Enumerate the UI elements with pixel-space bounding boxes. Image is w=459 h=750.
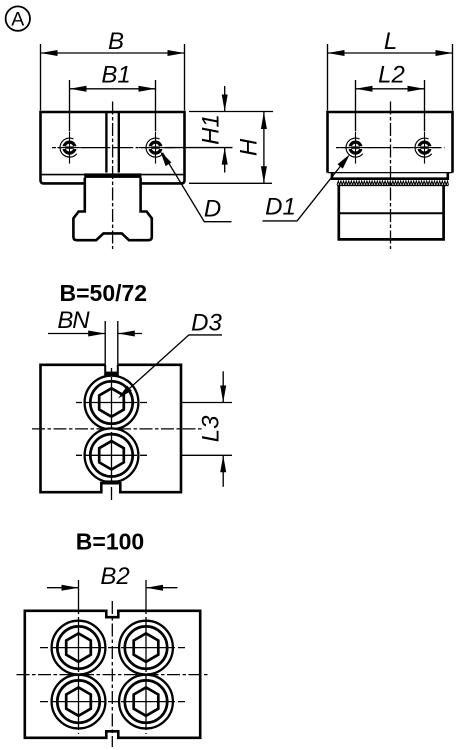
dimension H1 top reference line — [189, 111, 273, 113]
screw D3 upper (middle view) — [85, 376, 139, 430]
dimension B2 arrow right — [146, 585, 163, 591]
svg-text:L3: L3 — [198, 415, 225, 442]
side view: body bottom line — [328, 172, 453, 174]
side view: serrated gripping surface — [337, 181, 448, 185]
svg-text:B2: B2 — [100, 563, 129, 590]
bottom view: body outline with slot notches — [25, 611, 200, 738]
front view: horizontal centerline through screws — [52, 147, 174, 149]
svg-text:BN: BN — [57, 307, 90, 334]
screw D left (front view) — [60, 138, 77, 157]
svg-text:H1: H1 — [197, 114, 224, 145]
front view: body bottom line — [41, 174, 184, 176]
side view: lower block outline — [339, 186, 444, 240]
dimension L3 arrow bottom — [220, 455, 226, 472]
label D3 leader line — [121, 335, 223, 397]
svg-text:H: H — [235, 138, 262, 156]
front view: serration band on stem — [84, 173, 141, 178]
bottom view: horizontal centerline — [17, 674, 209, 676]
dimension B1 arrow left — [70, 86, 87, 92]
label D3 leader arrow — [118, 386, 132, 399]
screw top-left (bottom view) — [52, 621, 106, 675]
dimension H1 arrow bottom — [222, 148, 228, 165]
dimension B extension line left — [40, 44, 42, 111]
dimension L2 extension line right — [424, 80, 426, 131]
dimension L2 line — [356, 88, 425, 90]
screw D1 left (side view) — [346, 138, 363, 157]
dimension H arrow bottom — [261, 166, 267, 183]
dimension L arrow left — [328, 50, 345, 56]
view indicator circle A — [6, 6, 30, 30]
svg-text:B: B — [108, 28, 124, 55]
label D1 leader line — [263, 159, 347, 221]
dimension L arrow right — [436, 50, 453, 56]
front view: T-slot foot outline — [73, 178, 151, 240]
label D leader line — [163, 153, 232, 222]
side view: vertical centerline — [390, 102, 392, 250]
middle view: vertical centerline — [111, 368, 113, 500]
front view: central slot right edge — [118, 113, 120, 173]
dimension B2 line left tail — [47, 587, 79, 589]
dimension BN arrow left — [88, 331, 105, 337]
screw D3 lower (middle view) — [85, 428, 139, 482]
dimension L3 line upper tail — [222, 371, 224, 402]
middle view: body outline with bottom notch — [41, 365, 182, 492]
screw D right (front view) — [146, 138, 163, 157]
svg-text:D: D — [204, 196, 221, 223]
dimension BN arrow right — [118, 331, 135, 337]
middle view: screw-to-notch junction fill — [105, 480, 118, 484]
svg-text:A: A — [11, 8, 24, 30]
dimension L2 extension line left — [355, 80, 357, 131]
side view: lower block split line — [339, 212, 444, 214]
screw bottom-right (bottom view) — [119, 675, 173, 729]
svg-text:L2: L2 — [378, 62, 405, 89]
middle view: horizontal centerline — [32, 428, 203, 430]
screw D1 right (side view) — [415, 138, 432, 157]
dimension B1 extension line left — [69, 80, 71, 131]
bottom view: column centerline left — [78, 580, 80, 734]
middle view: slot wall left — [104, 365, 106, 377]
dimension BN extension line right — [117, 321, 119, 365]
screw top-right (bottom view) — [119, 621, 173, 675]
dimension B2 arrow left — [62, 585, 79, 591]
svg-text:D1: D1 — [265, 194, 296, 221]
dimension L2 arrow right — [408, 86, 425, 92]
bottom view: column centerline right — [145, 580, 147, 734]
dimension L extension line right — [452, 44, 454, 111]
dimension B1 arrow right — [139, 86, 156, 92]
dimension B arrow left — [41, 50, 58, 56]
front view: vertical centerline — [112, 102, 114, 250]
screw D3 upper centerline — [76, 402, 147, 404]
dimension H1 line upper tail — [224, 86, 226, 112]
dimension L3 top reference line — [182, 402, 232, 404]
screw D3 lower centerline — [76, 454, 147, 456]
dimension BN line left tail — [48, 333, 105, 335]
dimension BN extension line left — [104, 321, 106, 365]
dimension L2 arrow left — [356, 86, 373, 92]
dimension H arrow top — [261, 112, 267, 129]
middle view: slot-to-screw junction fill — [105, 372, 118, 376]
dimension B1 extension line right — [155, 80, 157, 131]
dimension B1 line — [70, 88, 156, 90]
dimension B extension line right — [184, 44, 186, 111]
dimension B2 line right tail — [146, 587, 178, 589]
dimension L3 line lower tail — [222, 455, 224, 487]
middle view: slot wall right — [117, 365, 119, 377]
dimension B line — [41, 52, 185, 54]
side view: jaw body outline — [328, 112, 453, 173]
screw bottom-left (bottom view) — [52, 675, 106, 729]
dimension B arrow right — [168, 50, 185, 56]
dimension H bottom reference line — [189, 182, 272, 184]
dimension BN line right tail — [118, 333, 142, 335]
side view: horizontal centerline through screws — [336, 147, 445, 149]
dimension L3 arrow top — [220, 386, 226, 403]
side view: bottom lip — [332, 173, 448, 179]
bottom view: row centerline upper — [40, 647, 185, 649]
svg-text:D3: D3 — [191, 310, 222, 337]
dimension H1 line lower tail — [224, 148, 226, 173]
dimension L extension line left — [327, 44, 329, 111]
front view: central slot left edge — [105, 113, 107, 173]
bottom view: row centerline lower — [40, 701, 185, 703]
dimension H1 bottom reference line — [166, 147, 233, 149]
label D1 leader arrow — [338, 154, 350, 168]
svg-text:B=50/72: B=50/72 — [59, 280, 147, 306]
bottom view: vertical slot centerline — [111, 601, 113, 747]
dimension L3 bottom reference line — [182, 454, 232, 456]
dimension L line — [328, 52, 453, 54]
svg-text:L: L — [384, 28, 397, 55]
side view: serration base line — [337, 184, 449, 186]
svg-text:B=100: B=100 — [76, 529, 144, 555]
label D leader arrow — [160, 151, 171, 166]
svg-text:B1: B1 — [101, 62, 130, 89]
front view: jaw body outline — [41, 112, 185, 183]
dimension H1 arrow top — [222, 95, 228, 112]
dimension H line — [263, 112, 265, 183]
